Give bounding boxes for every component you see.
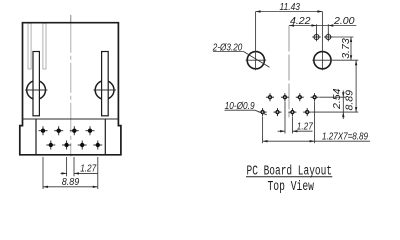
led hole right: [324, 33, 333, 42]
dim line 8.89: [43, 186, 98, 188]
body cross line: [23, 118, 119, 120]
pin 1: [39, 126, 48, 135]
pin 6: [78, 141, 87, 150]
left hole h-centerline: [246, 59, 267, 61]
arrow 3.73 bottom: [350, 55, 352, 60]
pin 4: [62, 141, 71, 150]
ext line 3.73 top: [332, 36, 354, 38]
arrow 11.43 right: [317, 10, 322, 12]
arrow 1.27 left: [280, 130, 285, 132]
svg-text:2.00: 2.00: [333, 15, 355, 27]
ext line / v-centerline right hole: [321, 12, 323, 71]
arrow 1.27 right: [292, 130, 297, 132]
arrow 4.22 right: [312, 24, 317, 26]
arrow 1.27 right: [74, 172, 79, 174]
svg-text:2.54: 2.54: [331, 88, 343, 110]
svg-text:2-Ø3.20: 2-Ø3.20: [212, 41, 242, 53]
ext line pin4: [66, 157, 68, 176]
slot rail left: [28, 23, 31, 69]
body outline: [20, 23, 121, 155]
ext line pin col 1: [262, 117, 264, 144]
hole 7 (bottom row): [303, 108, 311, 116]
svg-text:4.22: 4.22: [290, 15, 311, 27]
arrow 2.54 bottom(out): [342, 112, 344, 117]
ext line bottom row right: [312, 111, 359, 113]
dim line 1.27X7: [263, 140, 370, 142]
arrow 2.54 top(out): [342, 92, 344, 97]
ext line led right: [327, 24, 329, 34]
leader 10-phi0.9: [225, 109, 255, 111]
dim line 1.27 right part: [74, 172, 98, 174]
dim line 11.43: [256, 11, 323, 13]
slot rail right: [43, 23, 46, 69]
board pin holes (10-Ø0.9), staggered rows: [259, 93, 319, 116]
hole 4 (top row): [281, 93, 289, 101]
ext line pin col 4: [284, 102, 286, 134]
mounting hole right: [314, 52, 331, 69]
ext line led left: [316, 24, 318, 34]
pin 7: [86, 126, 95, 135]
svg-text:1.27: 1.27: [297, 121, 314, 133]
svg-text:1.27: 1.27: [80, 163, 97, 175]
arrow 2.00 left(out): [328, 24, 333, 26]
svg-text:10-Ø0.9: 10-Ø0.9: [225, 100, 255, 112]
left view dimensions: [43, 157, 98, 189]
dim line 3.73: [350, 37, 352, 60]
pin 8: [93, 141, 102, 150]
pin 2: [46, 141, 55, 150]
arrow 4.22 left: [289, 24, 294, 26]
ext line pin col 8: [314, 102, 316, 144]
ext line pin8: [97, 157, 99, 189]
arrow 8.89 right: [93, 186, 98, 188]
svg-text:11.43: 11.43: [280, 1, 301, 13]
centerline (left view): [70, 15, 72, 23]
arrow 3.73 top: [350, 37, 352, 42]
hole 8 (top row): [311, 93, 319, 101]
housing right wall: [104, 119, 106, 155]
svg-text:3.73: 3.73: [340, 38, 352, 59]
arrow 1.27X7 right: [310, 140, 315, 142]
left circle centerline: [25, 89, 47, 91]
hole 1 (bottom row): [259, 108, 267, 116]
ext line pin col 5: [291, 117, 293, 134]
dim line 4.22 / 2.00: [289, 25, 356, 27]
pin 3: [54, 126, 63, 135]
caption underline: [246, 176, 332, 178]
ext line y60 right: [333, 59, 359, 61]
pins of left view (8 staggered): [39, 126, 103, 149]
hole 2 (top row): [266, 93, 274, 101]
left circle boss: [27, 81, 46, 100]
right circle boss: [95, 81, 114, 100]
led hole left: [312, 33, 321, 42]
arrow 8.89v bottom: [355, 107, 357, 112]
arrow 1.27X7 left: [263, 140, 268, 142]
mounting hole left: [247, 52, 264, 69]
ext line / v-centerline left hole: [255, 12, 257, 71]
svg-text:Top View: Top View: [268, 180, 315, 195]
arrow 1.27 left: [62, 172, 67, 174]
hole 3 (bottom row): [274, 108, 282, 116]
arrow 11.43 left: [256, 10, 261, 12]
dim line 1.27 left part: [278, 130, 285, 132]
centerline (right view): [288, 26, 290, 118]
dim line 8.89 vertical: [355, 60, 357, 112]
right hole h-centerline: [312, 59, 333, 61]
ext line 2.54 top: [319, 96, 345, 98]
left post: [33, 52, 39, 116]
pin 5: [70, 126, 79, 135]
right circle centerline: [94, 89, 117, 91]
svg-text:8.89: 8.89: [344, 90, 356, 111]
dim line 1.27 left part: [61, 172, 67, 174]
ext line pin5: [73, 157, 75, 176]
dim line 2.54: [342, 91, 344, 120]
LED holes: [312, 33, 332, 42]
hole 6 (top row): [296, 93, 304, 101]
right post: [102, 52, 109, 116]
ext line pin1: [42, 157, 44, 189]
arrow 8.89v top: [355, 60, 357, 65]
svg-text:1.27X7=8.89: 1.27X7=8.89: [322, 130, 368, 142]
svg-text:8.89: 8.89: [62, 176, 80, 188]
hole 5 (bottom row): [288, 108, 296, 116]
dim line 1.27 right part: [292, 130, 312, 132]
arrow 8.89 left: [43, 186, 48, 188]
housing left wall: [35, 119, 37, 155]
leader 2-phi3.20: [213, 51, 244, 53]
right view dimension lines: [213, 12, 370, 144]
